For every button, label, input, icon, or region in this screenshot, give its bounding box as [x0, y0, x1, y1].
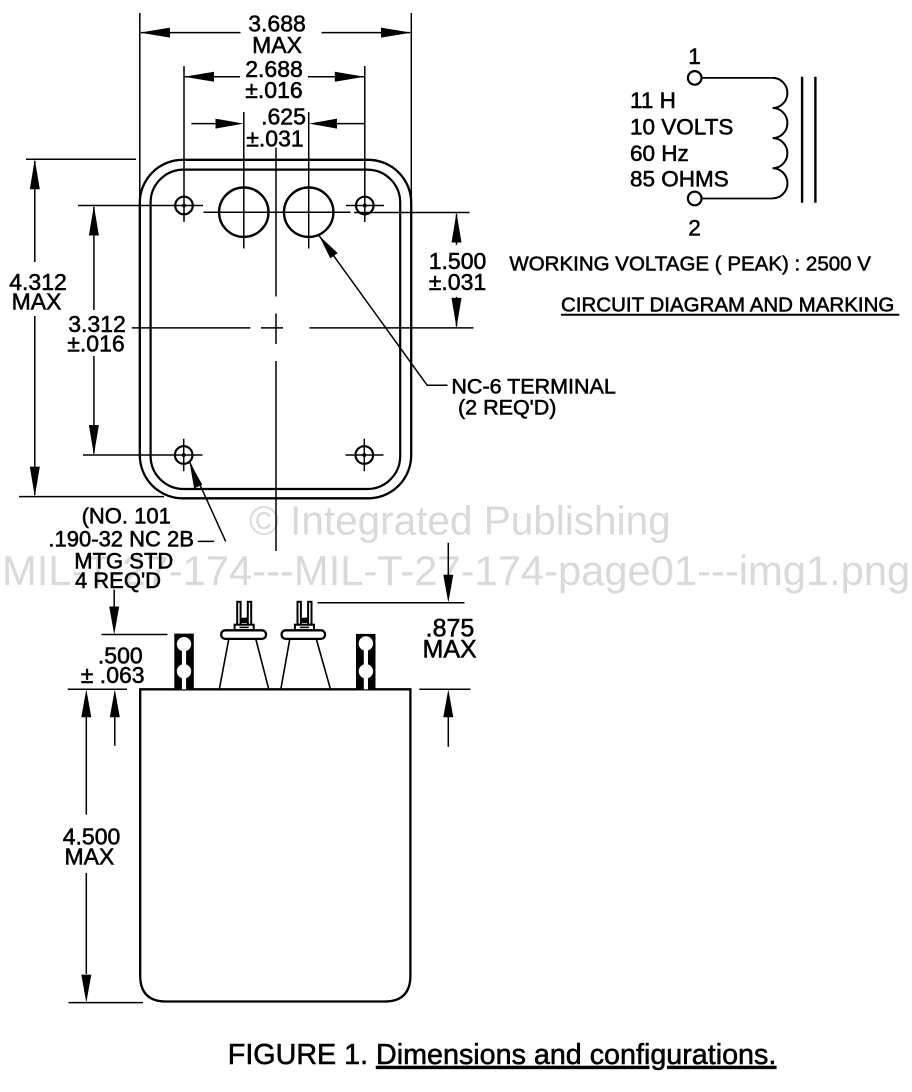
- vertical centerline: [275, 148, 277, 552]
- mounting hole bottom-right: [356, 446, 374, 464]
- mounting hole top-left: [175, 197, 193, 215]
- dim 4.500 lower line: [85, 873, 87, 974]
- terminal 2 circle: [688, 192, 702, 206]
- svg-text:© Integrated Publishing: © Integrated Publishing: [249, 498, 671, 544]
- mounting stud right: [356, 634, 376, 689]
- body top extension line left: [68, 688, 127, 690]
- wire terminal 2 to coil: [702, 198, 773, 200]
- svg-text:± .063: ± .063: [81, 662, 145, 688]
- dim .625 right arrowhead: [309, 119, 337, 129]
- svg-text:MAX: MAX: [64, 843, 114, 869]
- svg-text:4 REQ'D: 4 REQ'D: [75, 568, 161, 593]
- dim 3.688 left arrowhead: [140, 28, 170, 38]
- terminal A solder wedge: [241, 617, 247, 623]
- terminal hole right (top view): [284, 188, 333, 237]
- svg-text:85 OHMS: 85 OHMS: [630, 166, 729, 191]
- dim .625 left arrowhead: [216, 119, 244, 129]
- terminal holes vertical crosshairs / .625 extension lines: [244, 112, 309, 249]
- svg-text:WORKING VOLTAGE ( PEAK) : 2500: WORKING VOLTAGE ( PEAK) : 2500 V: [509, 253, 871, 276]
- dim 2.688 dimension line: [184, 76, 365, 78]
- terminal A flange: [221, 630, 266, 639]
- horizontal centerline: [132, 327, 474, 329]
- dim .500 lower arrow: [114, 716, 116, 746]
- svg-text:(NO. 101: (NO. 101: [82, 504, 171, 529]
- dim .500 upper arrow: [113, 590, 115, 609]
- mounting stud left: [174, 634, 194, 690]
- dim .625 approach lines: [191, 123, 364, 125]
- svg-text:±.031: ±.031: [429, 269, 486, 295]
- core lines: [802, 77, 815, 203]
- terminal B prongs: [298, 602, 301, 627]
- dim .875 up arrow: [447, 716, 449, 747]
- dim 3.312 top arrowhead: [89, 206, 99, 236]
- leader MTG arrowhead: [190, 462, 203, 489]
- dim 3.312 bottom extension line: [83, 454, 203, 456]
- dim 4.500 bottom extension line: [69, 1002, 144, 1004]
- svg-text:FIGURE 1. Dimensions and confi: FIGURE 1. Dimensions and configurations.: [228, 1039, 777, 1071]
- dim .875 top extension line: [318, 602, 465, 604]
- wire terminal 1 to coil: [702, 77, 773, 79]
- dim 4.312 bottom arrowhead: [30, 467, 40, 497]
- dim 4.312 extension lines: [19, 159, 164, 496]
- stud top extension line: [102, 634, 168, 636]
- svg-text:MAX: MAX: [252, 32, 302, 58]
- terminal A prongs: [237, 602, 240, 627]
- dim 2.688 right arrowhead: [335, 72, 365, 82]
- body top extension line right: [419, 688, 470, 690]
- terminal A base: [235, 625, 254, 631]
- dim 4.312 top arrowhead: [30, 159, 40, 189]
- dim 4.312 dimension line: [34, 161, 36, 495]
- terminal A legs: [219, 639, 268, 689]
- dim 3.312 bottom arrowhead: [89, 425, 99, 455]
- dim 1.500 dimension line: [456, 214, 458, 327]
- terminal B legs: [281, 639, 331, 689]
- svg-text:1: 1: [688, 44, 701, 69]
- svg-text:(2 REQ'D): (2 REQ'D): [458, 396, 556, 420]
- dim 1.500 top extension line: [354, 212, 470, 214]
- dim .875 down arrow: [447, 543, 449, 576]
- leader NC-6 terminal: [319, 236, 448, 386]
- dim 1.500 up arrowhead: [452, 213, 462, 243]
- svg-text:60 Hz: 60 Hz: [630, 141, 689, 166]
- dim 3.312 dimension line: [93, 207, 95, 454]
- terminal B solder wedge: [301, 617, 307, 623]
- dim 3.688 extension lines: [140, 13, 412, 203]
- dim 1.500 down arrowhead: [452, 298, 462, 328]
- dim 3.688 dimension line: [141, 32, 410, 34]
- case outline inner (top view): [151, 170, 401, 489]
- svg-text:11 H: 11 H: [630, 88, 676, 113]
- dim 3.312 top extension line: [78, 205, 203, 207]
- dim 2.688 left arrowhead: [184, 72, 214, 82]
- mounting hole bottom-left: [175, 446, 193, 464]
- terminal 1 circle: [688, 71, 702, 85]
- terminal hole left (top view): [219, 188, 268, 237]
- svg-text:±.031: ±.031: [246, 126, 303, 152]
- svg-text:10 VOLTS: 10 VOLTS: [630, 115, 733, 140]
- svg-text:±.016: ±.016: [67, 331, 124, 357]
- mounting hole top-right: [356, 197, 374, 215]
- inductor winding L1: [773, 78, 788, 198]
- dim 3.688 right arrowhead: [381, 28, 411, 38]
- leader NC-6 arrowhead: [319, 236, 338, 259]
- dim 4.500 upper arrow: [85, 716, 87, 815]
- svg-text:MAX: MAX: [12, 289, 62, 315]
- terminal holes horizontal crosshair: [204, 211, 351, 213]
- leader MTG stud: [190, 462, 226, 542]
- case outline outer (top view): [140, 160, 411, 499]
- dim 2.688 extension lines: [184, 66, 365, 222]
- svg-text:2: 2: [688, 216, 701, 241]
- svg-text:±.016: ±.016: [245, 77, 302, 103]
- terminal B flange: [282, 630, 325, 639]
- case body (side view): [140, 689, 410, 1001]
- terminal B base: [295, 625, 314, 631]
- svg-text:MAX: MAX: [423, 636, 478, 664]
- svg-text:CIRCUIT DIAGRAM AND MARKING: CIRCUIT DIAGRAM AND MARKING: [561, 294, 894, 317]
